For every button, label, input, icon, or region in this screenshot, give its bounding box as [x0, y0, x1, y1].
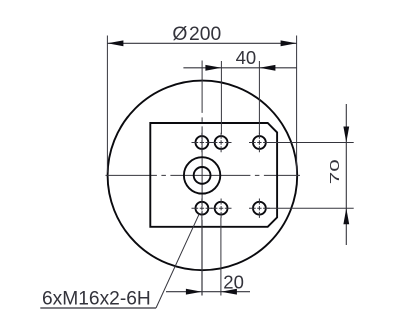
dimension Ø200 extension line right	[296, 36, 298, 175]
dimension 40 extension line right	[258, 61, 260, 134]
thread label 6xM16x2-6H text with underline	[40, 289, 156, 310]
dimension 20 line with outside arrows	[166, 289, 250, 295]
bolt hole B4 bottom-left M16	[192, 199, 213, 218]
dimension 40 text	[236, 47, 257, 68]
svg-text:70: 70	[327, 159, 342, 184]
svg-text:Ø 200: Ø 200	[172, 24, 221, 45]
bolt hole B6 bottom-right M16	[249, 199, 270, 218]
dimension Ø200 text	[172, 24, 221, 45]
plate outline with chamfered right corners	[150, 123, 277, 227]
dimension Ø200 line with arrows	[107, 40, 296, 46]
dimension 20 extension line right	[220, 218, 222, 296]
center hole inner circle	[194, 167, 211, 184]
horizontal centerline	[106, 174, 301, 176]
circle outline Ø200 flange	[108, 81, 298, 271]
dimension Ø200 extension line left	[106, 36, 108, 173]
bolt hole B2 top-middle M16	[211, 133, 232, 152]
dimension 70 extension line top	[266, 142, 354, 144]
dimension 20 text	[223, 272, 244, 293]
dimension 20 extension line left	[201, 218, 203, 296]
svg-text:6xM16x2-6H: 6xM16x2-6H	[42, 289, 151, 310]
vertical centerline	[201, 61, 203, 296]
dimension 40 line with outside arrows	[183, 65, 296, 71]
bolt hole B3 top-right M16	[249, 133, 270, 152]
bolt hole B5 bottom-middle M16	[211, 199, 232, 218]
center hole outer circle	[184, 157, 220, 193]
dimension 70 extension line bottom	[266, 207, 354, 209]
svg-text:40: 40	[236, 47, 257, 68]
bolt hole B1 top-left M16	[192, 133, 213, 152]
dimension 70 line with outside arrows	[343, 104, 349, 245]
leader line from label to bolt hole B4	[156, 214, 199, 308]
dimension 70 text (rotated)	[327, 159, 342, 184]
dimension 40 extension line left	[220, 61, 222, 134]
svg-text:20: 20	[223, 272, 244, 293]
